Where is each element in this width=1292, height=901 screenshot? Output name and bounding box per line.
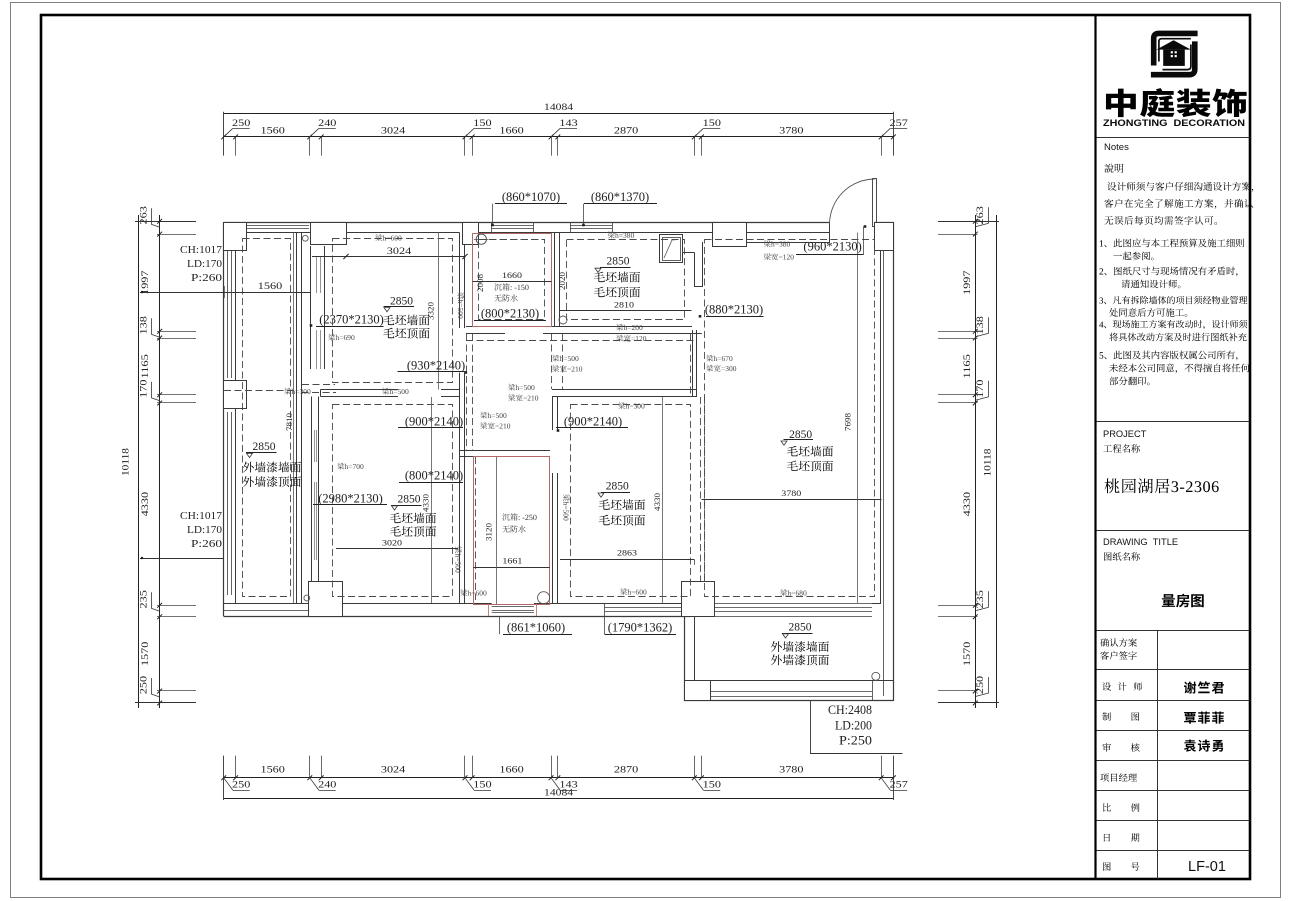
svg-text:CH:2408: CH:2408: [828, 703, 872, 717]
svg-text:1560: 1560: [258, 281, 283, 291]
svg-text:(800*2130): (800*2130): [481, 307, 539, 321]
svg-text:LD:170: LD:170: [187, 524, 222, 536]
svg-text:3024: 3024: [381, 125, 406, 135]
interior dim 1560: [140, 292, 310, 294]
V2b glazing stubs: [314, 430, 316, 462]
row date: [1104, 834, 1110, 842]
svg-text:3780: 3780: [779, 764, 804, 774]
vertical dim 4330 bottom-left room: [431, 397, 433, 603]
svg-text:1570: 1570: [140, 641, 150, 666]
bathroom bottom wall H with 800 door gap: [466, 326, 505, 328]
small circles (symbols): [302, 235, 308, 241]
beam labels under bathroom2: [616, 324, 642, 331]
svg-text:143: 143: [559, 780, 578, 790]
interior wall H1a with 900 door gap: [321, 389, 398, 391]
logo inner echo line upper-left: [1159, 39, 1191, 62]
logo house window panes: [1171, 51, 1173, 53]
svg-text:10118: 10118: [983, 448, 993, 477]
row project manager: [1100, 773, 1109, 782]
signature table lines: [1097, 630, 1250, 632]
interior wall H1b (bedroom top): [552, 389, 697, 391]
svg-text:235: 235: [975, 589, 985, 608]
svg-text:150: 150: [703, 118, 722, 128]
right dimension chain: [975, 215, 977, 708]
svg-text:10118: 10118: [121, 447, 131, 476]
interior dim 1660 bathroom1: [473, 281, 552, 283]
svg-text:2863: 2863: [617, 549, 637, 558]
svg-text:1660: 1660: [499, 764, 524, 774]
interior dim below CH block 2: [140, 558, 224, 560]
svg-text:(800*2140): (800*2140): [405, 469, 463, 483]
svg-text:P:250: P:250: [839, 734, 872, 748]
interior dim 3780: [702, 499, 882, 501]
svg-text:Notes: Notes: [1104, 142, 1129, 153]
notes numbered items: [1100, 240, 1103, 246]
svg-text:1165: 1165: [140, 353, 150, 378]
svg-text:(1790*1362): (1790*1362): [608, 621, 673, 635]
beam label top-left 600: [375, 234, 401, 241]
svg-text:LF-01: LF-01: [1188, 859, 1226, 875]
svg-text:(2980*2130): (2980*2130): [318, 492, 383, 506]
svg-text:(861*1060): (861*1060): [507, 621, 565, 635]
svg-text:3024: 3024: [381, 764, 406, 774]
svg-text:150: 150: [703, 780, 722, 790]
title separator under logo: [1097, 137, 1250, 139]
project section divider: [1097, 421, 1250, 423]
svg-text:2020: 2020: [558, 272, 567, 290]
svg-text:ZHONGTING DECORATION: ZHONGTING DECORATION: [1103, 118, 1245, 128]
beam label top right: [764, 240, 790, 247]
svg-text:170: 170: [975, 379, 985, 398]
beam labels bottom: [460, 589, 486, 596]
V2a glazing stubs: [316, 257, 318, 293]
rotated beam labels near kitchen: [455, 546, 462, 572]
svg-text:2850: 2850: [606, 481, 629, 493]
svg-text:3020: 3020: [382, 539, 402, 548]
svg-text:2850: 2850: [789, 622, 812, 634]
interior dim 2810 bathroom2: [560, 310, 692, 312]
row checker: [1102, 743, 1111, 752]
svg-text:1661: 1661: [502, 557, 522, 566]
exterior left wall: [223, 223, 225, 617]
entry door leaf: [873, 179, 877, 227]
svg-text:138: 138: [975, 315, 985, 334]
svg-text:1997: 1997: [962, 270, 972, 295]
dashed beam rect bathroom1: [479, 240, 545, 320]
living room left wall V6 with 880 door gap: [694, 253, 696, 287]
interior dim 3024: [312, 256, 465, 258]
svg-text:(860*1370): (860*1370): [591, 190, 649, 204]
logo house body: [1163, 50, 1185, 66]
logo wordmark 中庭装饰: [1106, 88, 1247, 117]
svg-text:7698: 7698: [844, 413, 853, 431]
entry inner wall line: [747, 242, 830, 244]
rotated beam label wall V3: [457, 292, 464, 318]
dashed beam rect bedroom1: [333, 239, 453, 383]
bottom wall window (1790*1362): [605, 607, 690, 609]
svg-text:2870: 2870: [614, 764, 639, 774]
left room beam dash: [224, 390, 296, 392]
svg-text:240: 240: [318, 118, 337, 128]
columns (white blocks): [224, 223, 247, 251]
svg-text:P:260: P:260: [191, 538, 223, 550]
interior wall V1 (left room right side): [296, 233, 298, 604]
svg-text:250: 250: [975, 675, 985, 694]
svg-text:263: 263: [138, 205, 148, 224]
left wall window lines: [227, 250, 229, 378]
dashed beam rect left room: [243, 239, 291, 597]
svg-text:2850: 2850: [253, 441, 276, 453]
exterior right wall: [893, 223, 895, 702]
svg-text:4330: 4330: [422, 494, 431, 512]
interior wall V4 (between bathrooms): [554, 233, 556, 328]
top wall window (860*1370): [570, 225, 612, 227]
svg-text:1570: 1570: [962, 641, 972, 666]
top dimension chain: [224, 113, 894, 115]
svg-text:CH:1017: CH:1017: [180, 510, 223, 522]
balcony left wall: [684, 616, 686, 701]
svg-text:3120: 3120: [485, 523, 494, 541]
exterior bottom wall left part: [224, 616, 691, 618]
svg-text:138: 138: [138, 315, 148, 334]
svg-text:3320: 3320: [427, 302, 436, 320]
interior dim 3020: [336, 548, 458, 550]
svg-text:235: 235: [138, 589, 148, 608]
bathroom1 red outline: [473, 234, 552, 327]
svg-text:(960*2130): (960*2130): [803, 240, 861, 254]
logo inner echo line lower-right: [1163, 45, 1191, 70]
svg-text:2850: 2850: [398, 494, 421, 506]
row drafter: [1102, 712, 1111, 721]
balcony bottom window wall: [684, 680, 893, 682]
entry door opening jambs: [829, 223, 831, 233]
svg-text:240: 240: [318, 780, 337, 790]
logo frame stroke upper-left: [1154, 33, 1198, 65]
bottom wall red marks near kitchen window: [488, 604, 490, 617]
interior wall V2a upper: [310, 246, 312, 369]
svg-text:CH:1017: CH:1017: [180, 244, 223, 256]
kitchen/bedroom wall V5 with door gap: [552, 397, 554, 430]
svg-text:2850: 2850: [607, 256, 630, 268]
drawing title 量房图: [1162, 594, 1175, 607]
svg-text:1560: 1560: [260, 125, 285, 135]
left dimension chain: [138, 215, 140, 708]
svg-text:4330: 4330: [140, 491, 150, 516]
top-right corner wall piece: [875, 222, 894, 224]
vertical dim 7810 line: [293, 233, 295, 604]
dashed beam rect bathroom2: [567, 240, 685, 320]
svg-text:1165: 1165: [962, 353, 972, 378]
bottom wall window (861*1060): [492, 606, 534, 608]
beam label 380 over bathroom2: [608, 232, 634, 239]
svg-text:170: 170: [138, 379, 148, 398]
project name: [1105, 478, 1120, 493]
svg-text:2870: 2870: [614, 125, 639, 135]
svg-text:1660: 1660: [502, 271, 522, 280]
svg-text:(900*2140): (900*2140): [564, 415, 622, 429]
bottom dimension chain: [224, 777, 894, 779]
vertical dim 7698 living room: [857, 233, 859, 604]
row designer: [1102, 682, 1111, 690]
interior dim 1661 kitchen: [473, 567, 549, 569]
svg-text:1560: 1560: [260, 764, 285, 774]
svg-text:3780: 3780: [781, 489, 801, 498]
dashed beam rect living room: [705, 240, 875, 597]
vertical dim 4330 bedroom mid: [662, 397, 664, 603]
svg-text:(930*2140): (930*2140): [407, 358, 465, 372]
drawing-title section divider: [1097, 530, 1250, 532]
beam label 700: [337, 463, 363, 470]
svg-text:(860*1070): (860*1070): [502, 190, 560, 204]
svg-text:(2370*2130): (2370*2130): [319, 313, 384, 327]
svg-text:(900*2140): (900*2140): [405, 415, 463, 429]
corridor dashed beams: [466, 340, 694, 342]
svg-text:(880*2130): (880*2130): [705, 303, 763, 317]
exterior top wall: [224, 222, 830, 224]
kitchen top wall H2: [460, 450, 551, 452]
svg-text:7810: 7810: [285, 413, 294, 431]
entry door swing arc: [830, 179, 875, 224]
svg-text:150: 150: [473, 780, 492, 790]
notes paragraph: [1107, 182, 1116, 191]
kitchen left dashed: [475, 457, 477, 600]
title block left divider: [1094, 15, 1096, 879]
logo frame stroke lower-right: [1151, 41, 1195, 74]
svg-text:2850: 2850: [390, 295, 413, 307]
balcony top window wall: [715, 603, 872, 605]
row scale: [1103, 803, 1111, 811]
svg-text:P:260: P:260: [191, 272, 223, 284]
interior dim 2863: [560, 559, 694, 561]
svg-text:2810: 2810: [614, 301, 634, 310]
svg-text:2008: 2008: [476, 274, 485, 292]
logo house roof: [1156, 40, 1191, 49]
svg-text:DRAWING TITLE: DRAWING TITLE: [1103, 537, 1178, 547]
svg-text:250: 250: [232, 118, 251, 128]
svg-text:263: 263: [975, 205, 985, 224]
interior wall V3 (with 930 door gap): [459, 233, 461, 329]
svg-text:3024: 3024: [387, 246, 412, 256]
svg-text:LD:170: LD:170: [187, 258, 222, 270]
row confirm plan / client sign: [1100, 638, 1109, 647]
top wall window left (1560 bay): [247, 225, 309, 227]
svg-text:257: 257: [890, 780, 909, 790]
svg-text:1660: 1660: [499, 125, 524, 135]
svg-text:PROJECT: PROJECT: [1103, 429, 1147, 439]
dashed beam rect bottom-left room: [333, 405, 453, 597]
svg-text:3780: 3780: [779, 125, 804, 135]
interior wall V2b lower: [311, 397, 313, 604]
svg-text:257: 257: [890, 118, 909, 128]
beam dash top bathroom1: [479, 239, 545, 241]
vertical dim 3320 bedroom1: [438, 233, 440, 390]
beam label pairs corridor: [552, 355, 578, 362]
kitchen red outline: [474, 457, 550, 605]
dashed beam rect bedroom mid-bottom: [571, 405, 691, 597]
svg-text:250: 250: [232, 780, 251, 790]
svg-text:14084: 14084: [544, 102, 574, 112]
svg-text:150: 150: [473, 118, 492, 128]
svg-text:4330: 4330: [653, 493, 662, 511]
row drawing number: [1103, 862, 1111, 870]
shaft/flue box with diagonal: [660, 235, 683, 263]
svg-text:4330: 4330: [962, 491, 972, 516]
svg-text:250: 250: [138, 675, 148, 694]
svg-text:143: 143: [559, 118, 578, 128]
top wall window (860*1070): [492, 225, 534, 227]
kitchen inner vertical line: [496, 457, 498, 604]
svg-text:LD:200: LD:200: [835, 719, 872, 733]
